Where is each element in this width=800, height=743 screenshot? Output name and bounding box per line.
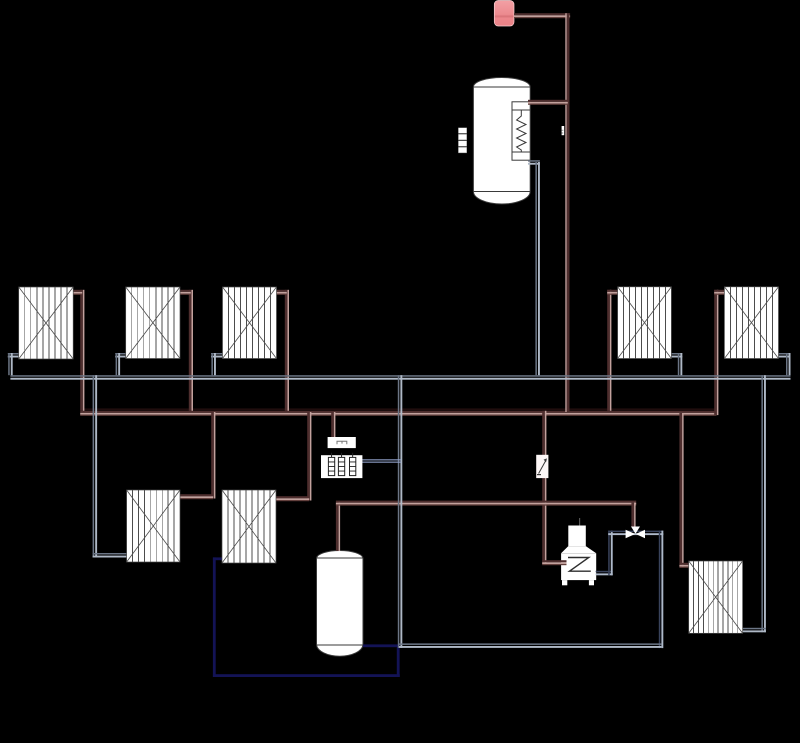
wire red cylinder-to-valve header <box>336 501 636 503</box>
hot water cylinder tank <box>473 78 530 205</box>
wire blue stub radiator A bottom-left <box>93 553 128 555</box>
wire navy return loop of radiator B (down, across bottom, up) <box>213 557 216 677</box>
mixing valve 3-way <box>626 530 636 539</box>
radiator 5 <box>724 287 778 359</box>
wire blue bottom run to node <box>399 643 661 645</box>
buffer cylinder <box>317 551 364 657</box>
pipe label tag <box>562 126 565 135</box>
wire red boiler riser through pump <box>542 411 545 565</box>
wire blue boiler outlet <box>596 571 613 573</box>
wire red stub radiator 4 top-left <box>607 290 618 292</box>
wire blue coil bottom connection <box>528 160 540 162</box>
wire red drop to radiator C <box>679 413 682 567</box>
wire red buffer cylinder riser <box>336 503 339 551</box>
wire red stub radiator 3 top-right <box>276 290 287 292</box>
wire blue coil return drop to main <box>535 162 537 375</box>
wire blue node riser <box>398 375 400 648</box>
wire red stub radiator 5 top-left <box>714 290 725 292</box>
radiator 2 <box>126 287 180 359</box>
wire blue stub radiator 2 bottom-left <box>115 353 126 355</box>
radiator 3 <box>223 287 277 359</box>
pump / regulating valve on boiler riser <box>536 455 548 478</box>
wire red drop to controller <box>331 412 334 438</box>
wire red stub radiator 2 top-right <box>180 290 191 292</box>
wire red expansion vessel pipe <box>514 13 570 15</box>
wire blue drop radiator 2 to main <box>116 353 118 375</box>
wire red main flow header <box>80 408 716 410</box>
wire navy link buffer cylinder to node <box>363 644 400 647</box>
wire blue boiler riser to valve <box>608 531 610 576</box>
wire blue stub radiator 3 bottom-left <box>211 353 223 355</box>
wire red riser radiator 3 <box>285 290 288 411</box>
boiler <box>579 518 581 526</box>
radiator A lower-left <box>127 490 180 562</box>
wire red expansion riser down to main <box>565 13 567 412</box>
wire red coil top connection <box>528 100 568 102</box>
wire red riser radiator 2 <box>189 290 192 411</box>
radiator B lower-left <box>222 490 276 563</box>
wire red feed radiator C top-left <box>679 563 689 565</box>
wire red riser radiator 4 <box>607 290 610 411</box>
coil heat-exchanger box inside tank <box>512 102 530 160</box>
wire blue drop radiator 1 to main <box>8 353 10 375</box>
wire red drop to radiator A <box>211 412 214 499</box>
wire blue return riser radiator A <box>93 375 95 557</box>
radiator 4 <box>618 287 672 359</box>
wire blue stub radiator 5 bottom-right <box>778 353 791 355</box>
radiator 1 <box>19 287 73 359</box>
controller box with battery terminals <box>321 455 362 478</box>
wire blue valve horizontal <box>608 531 663 533</box>
wire blue valve drop <box>659 531 661 649</box>
wire blue stub radiator 4 bottom-right <box>671 353 682 355</box>
wire navy stub radiator B bottom-left <box>213 557 223 560</box>
wire blue drop radiator 4 to main <box>678 353 680 375</box>
wire blue drop radiator 3 to main <box>211 353 213 375</box>
wire red feed radiator B top-right <box>276 496 310 498</box>
wire red riser radiator 5 <box>714 290 717 415</box>
wire red feed radiator A top-right <box>180 494 214 496</box>
wire red drop to mixing valve <box>631 503 634 527</box>
controller top box <box>328 437 356 448</box>
wire blue stub radiator C bottom-right <box>742 628 766 630</box>
wire blue drop radiator 5 to main <box>786 353 788 375</box>
wire blue stub radiator 1 bottom-left <box>8 353 19 355</box>
wire red drop to radiator B <box>307 412 310 501</box>
wire blue return riser radiator C <box>761 375 763 632</box>
wire red riser radiator 1 <box>80 290 83 411</box>
tank immersion connection blocks <box>458 128 466 134</box>
radiator C bottom-right <box>689 561 743 633</box>
wire red boiler inlet <box>542 560 566 562</box>
wire controller sensor cables <box>362 459 401 460</box>
wire red stub radiator 1 top-right <box>73 290 83 292</box>
wire blue main return header <box>10 375 790 377</box>
